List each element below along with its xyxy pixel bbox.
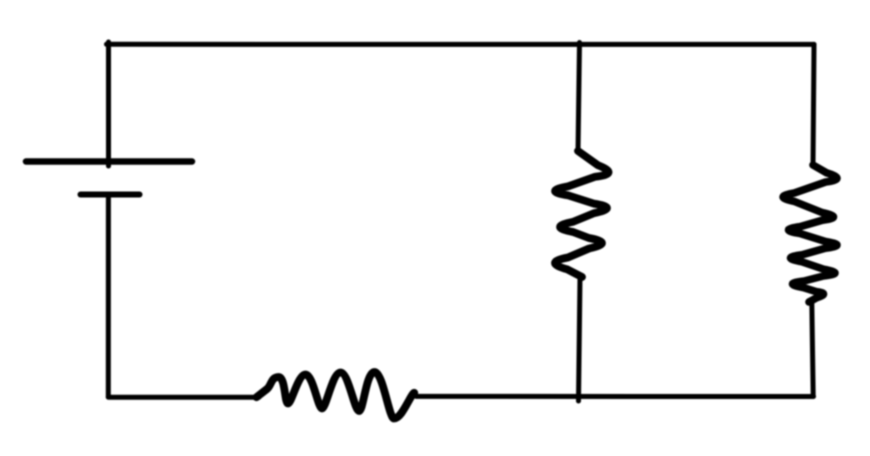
resistor R1 (middle branch, vertical coil) [555, 151, 609, 277]
wire right branch vertical upper (top rail to R2) [813, 44, 814, 166]
resistor R3 (bottom, horizontal squiggle) [257, 372, 415, 419]
wire middle branch vertical lower (R1 to bottom rail) [579, 277, 581, 402]
battery B1 negative plate (short) [81, 192, 140, 198]
wire middle branch vertical upper (top rail to R1) [578, 43, 580, 153]
wire bottom rail right segment [416, 394, 814, 399]
wire top rail [107, 42, 815, 47]
battery B1 positive plate (long) [26, 158, 192, 165]
wire right branch vertical lower (R2 to bottom rail) [812, 302, 813, 397]
wire bottom rail left segment [108, 395, 259, 400]
resistor R2 (right branch, vertical coil) [783, 165, 837, 302]
wire left vertical upper (top rail to battery +) [106, 42, 111, 166]
wire left vertical lower (battery - to bottom rail) [106, 195, 111, 398]
